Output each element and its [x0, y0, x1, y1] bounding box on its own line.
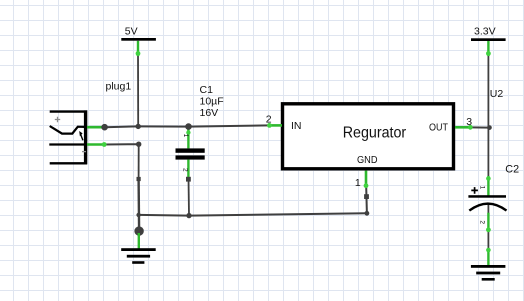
node plug pin1 junction — [101, 124, 108, 131]
wire top net: C1 junction to IN pin — [189, 125, 270, 126]
svg-text:IN: IN — [291, 120, 302, 132]
node C1 top junction — [185, 123, 192, 130]
node C1 bottom junction — [186, 213, 191, 218]
wire big dot to left ground — [138, 233, 140, 250]
svg-text:16V: 16V — [200, 107, 219, 119]
svg-text:U2: U2 — [490, 88, 504, 100]
regulator U1 — [283, 104, 454, 169]
label C2 — [505, 164, 519, 176]
svg-text:2: 2 — [479, 220, 486, 224]
wire C2 to right ground — [486, 248, 491, 266]
node left rail bend — [137, 177, 141, 181]
svg-text:3.3V: 3.3V — [474, 26, 496, 38]
wire GND pin down to corner — [365, 187, 368, 213]
svg-text:2: 2 — [182, 168, 189, 172]
svg-text:plug1: plug1 — [106, 81, 132, 93]
svg-text:3: 3 — [466, 116, 472, 128]
capacitor C2 — [468, 176, 506, 232]
connector plug1 pin 2 stub — [87, 142, 107, 147]
wire bottom net: C1 bottom to GND corner — [189, 213, 367, 215]
label U2 — [490, 88, 504, 100]
label plug1 — [106, 81, 132, 93]
svg-text:5V: 5V — [125, 26, 138, 38]
wire top net: 5V junction to C1 junction — [138, 125, 188, 127]
wire left rail lower segment — [137, 179, 140, 231]
wire bottom net: left rail to C1 bottom — [139, 214, 189, 217]
node 5V rail junction — [136, 124, 141, 129]
node GND corner junction — [365, 211, 370, 216]
wire plug pin2 to left rail — [105, 143, 139, 145]
pin label 3 — [466, 116, 472, 128]
wire left rail upper segment — [138, 144, 140, 179]
svg-text:1: 1 — [355, 177, 361, 189]
pin label 2 — [266, 114, 272, 126]
wire 3.3V rail down to OUT junction — [487, 50, 489, 178]
svg-text:Regurator: Regurator — [343, 124, 407, 141]
node bottom net left junction — [136, 213, 140, 217]
svg-text:GND: GND — [357, 154, 378, 166]
svg-text:C2: C2 — [505, 164, 519, 176]
connector plug1 body — [49, 110, 87, 164]
svg-text:1: 1 — [479, 186, 486, 190]
regulator pin OUT stub — [455, 125, 473, 130]
connector plug1 pin 1 stub — [87, 126, 105, 129]
svg-text:2: 2 — [266, 114, 272, 126]
node plug pin2 junction — [136, 142, 141, 147]
capacitor C1 — [176, 128, 205, 182]
wire C1 lower leg — [188, 178, 191, 216]
pin label 1 — [355, 177, 361, 189]
svg-text:1: 1 — [182, 134, 189, 138]
node OUT rail junction — [487, 125, 492, 130]
wire top net: plug pin1 to 5V junction — [105, 125, 139, 128]
ground symbol left — [121, 248, 156, 264]
svg-text:C1: C1 — [200, 84, 214, 96]
node ground big dot — [134, 226, 143, 235]
wire C2 pin2 to ground — [487, 204, 489, 250]
wire 5V rail down — [137, 50, 139, 126]
power symbol 3.3V — [471, 26, 506, 56]
svg-text:OUT: OUT — [429, 121, 448, 133]
regulator pin GND stub — [364, 171, 369, 199]
wire OUT pin to 3.3V rail — [471, 126, 490, 128]
regulator pin IN stub — [267, 123, 282, 128]
label C1 value — [200, 84, 224, 119]
power symbol 5V — [121, 26, 156, 56]
svg-text:10µF: 10µF — [200, 96, 224, 108]
ground symbol right — [471, 265, 506, 281]
